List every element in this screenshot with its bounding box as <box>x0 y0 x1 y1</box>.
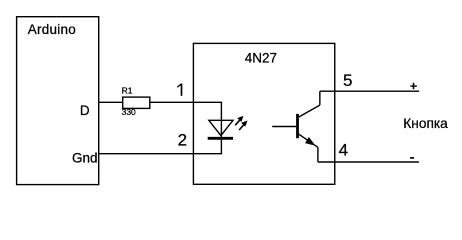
svg-text:Gnd: Gnd <box>72 150 98 165</box>
svg-text:D: D <box>80 103 90 118</box>
svg-text:5: 5 <box>343 71 352 90</box>
svg-text:330: 330 <box>122 107 136 117</box>
svg-text:R1: R1 <box>122 85 133 95</box>
svg-text:Arduino: Arduino <box>28 22 76 37</box>
svg-text:Кнопка: Кнопка <box>403 116 448 131</box>
svg-text:4: 4 <box>339 141 348 160</box>
svg-text:2: 2 <box>178 131 187 150</box>
svg-text:4N27: 4N27 <box>245 51 277 66</box>
